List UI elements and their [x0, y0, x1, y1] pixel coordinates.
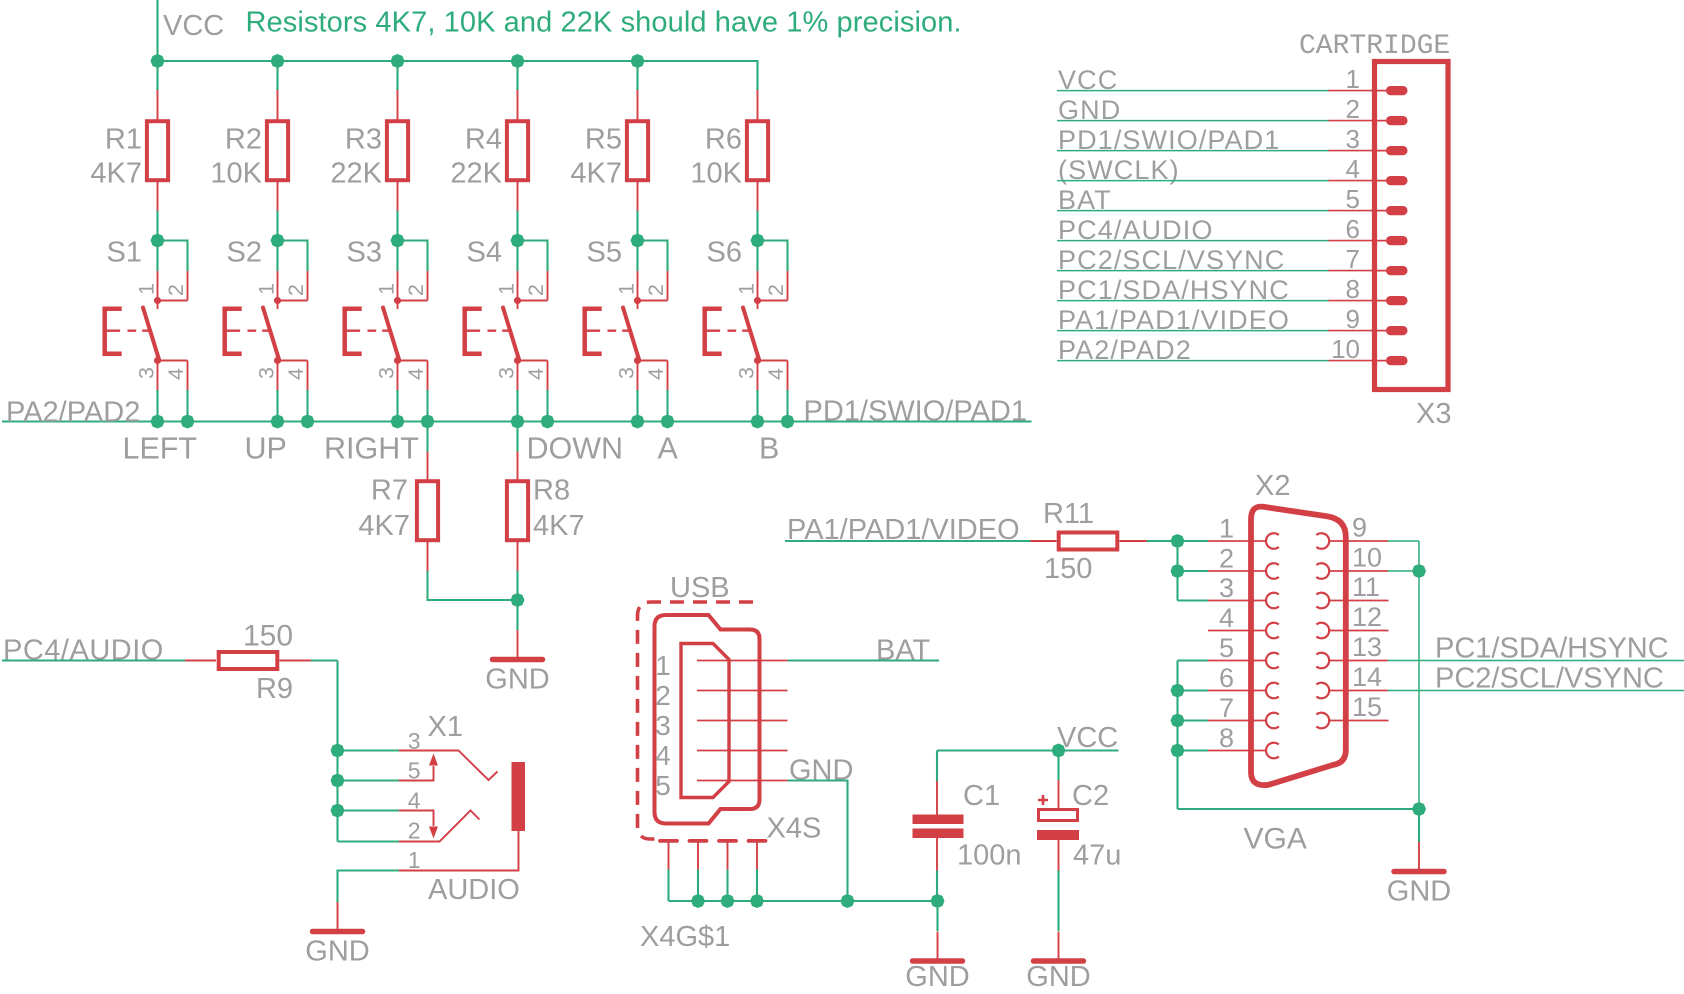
S2 pin3-pin4 link	[278, 360, 308, 362]
svg-text:7: 7	[1346, 244, 1360, 274]
svg-text:15: 15	[1352, 692, 1382, 722]
X3 pin 3 pad	[1374, 150, 1392, 152]
R5 bottom lead	[637, 180, 639, 211]
wire S5 node to pin2	[638, 241, 668, 272]
junction S3 pin1 node	[391, 234, 405, 248]
svg-text:8: 8	[1219, 723, 1234, 753]
X3 pin 10 pad	[1374, 360, 1392, 362]
junction bus S3 pin4	[421, 415, 435, 429]
wire C1 to gnd bus	[936, 871, 938, 902]
wire X3 VCC	[1057, 90, 1329, 92]
svg-text:R4: R4	[465, 124, 502, 156]
svg-text:GND: GND	[1026, 961, 1090, 993]
wire S5 pin4 to bus	[666, 390, 668, 422]
C2 bottom lead	[1058, 840, 1060, 871]
S1 actuator dashed link	[128, 330, 150, 332]
junction X2 gnd bottom	[1412, 802, 1426, 816]
R2 bottom lead	[277, 180, 279, 211]
X2 pin 11 lead	[1329, 600, 1389, 602]
wire C1 gnd down	[936, 901, 938, 931]
svg-text:PC4/AUDIO: PC4/AUDIO	[3, 635, 164, 667]
svg-text:BAT: BAT	[876, 635, 931, 667]
svg-text:4K7: 4K7	[358, 510, 410, 542]
svg-text:4: 4	[1219, 603, 1234, 633]
svg-text:PC2/SCL/VSYNC: PC2/SCL/VSYNC	[1435, 663, 1664, 695]
S1 pin 1 lead	[157, 271, 159, 301]
wire shield stub 4 down	[756, 870, 758, 902]
junction S6 pin1 node	[751, 234, 765, 248]
C1 top lead	[936, 781, 938, 815]
wire X2 pin7 stub	[1178, 719, 1209, 721]
S5 actuator dashed link	[608, 330, 630, 332]
S4 pin 4 lead	[547, 361, 549, 391]
S2 pin3 stub	[277, 352, 279, 361]
S2 pin 4 lead	[307, 361, 309, 391]
wire VCC to R5	[636, 61, 638, 90]
junction gnd bus pin5	[841, 894, 855, 908]
svg-text:3: 3	[655, 710, 671, 741]
svg-text:VCC: VCC	[1057, 722, 1118, 754]
junction bus S4 pin4	[541, 415, 555, 429]
junction gnd bus stub 1	[691, 894, 705, 908]
R8 top lead	[517, 452, 519, 483]
X3 pin 9 lead	[1329, 330, 1375, 332]
wire VCC to R2	[276, 61, 278, 90]
svg-text:2: 2	[408, 818, 421, 844]
wire S1 node to pin1	[156, 241, 158, 272]
wire S6 pin3 to bus	[756, 390, 758, 422]
svg-text:3: 3	[375, 367, 399, 379]
junction X2 pin7	[1171, 714, 1185, 728]
wire shield stub 1 down	[667, 870, 669, 902]
resistor R1	[147, 121, 168, 180]
wire X4 pin1 BAT	[788, 659, 940, 661]
R7 bottom lead	[427, 540, 429, 571]
wire X2 gnd down	[1418, 809, 1420, 842]
svg-text:UP: UP	[245, 432, 287, 466]
S4 pin1 stub	[517, 301, 519, 310]
S1 pin1 stub	[157, 301, 159, 310]
S5 pin1-pin2 link	[638, 300, 668, 302]
S5 pin1 contact dot	[634, 297, 641, 304]
wire X3 PC4/AUDIO	[1057, 240, 1329, 242]
svg-text:R6: R6	[705, 124, 742, 156]
svg-text:5: 5	[1346, 184, 1360, 214]
junction bus S5 pin4	[661, 415, 675, 429]
wire shield stub 3 down	[726, 870, 728, 902]
svg-text:1: 1	[408, 847, 421, 873]
svg-text:12: 12	[1352, 602, 1382, 632]
svg-text:2: 2	[1346, 94, 1360, 124]
svg-text:22K: 22K	[330, 158, 382, 190]
svg-text:R7: R7	[371, 475, 408, 507]
resistor R8	[507, 481, 528, 540]
S6 pin 1 lead	[757, 271, 759, 301]
wire X2 video column	[1176, 541, 1178, 601]
X4 pin 4 lead	[697, 750, 788, 752]
S6 pin3 stub	[757, 352, 759, 361]
X3 pin 5 pad	[1374, 210, 1392, 212]
X2 pin 14 lead	[1329, 690, 1389, 692]
S1 pin 4 lead	[187, 361, 189, 391]
svg-text:8: 8	[1346, 274, 1360, 304]
wire S4 pin4 to bus	[546, 390, 548, 422]
svg-text:R5: R5	[585, 124, 622, 156]
wire S3 pin4 to bus	[426, 390, 428, 422]
X3 pin 6 lead	[1329, 240, 1375, 242]
X3 pin 8 lead	[1329, 300, 1375, 302]
junction VCC rail col5	[631, 54, 645, 68]
X2 pin 8 lead	[1208, 750, 1267, 752]
svg-text:4: 4	[284, 368, 308, 380]
wire PC4/AUDIO	[2, 659, 185, 661]
X3 pin 10 lead	[1329, 360, 1375, 362]
svg-text:1: 1	[615, 283, 639, 295]
svg-text:10K: 10K	[210, 158, 262, 190]
svg-text:1: 1	[655, 650, 671, 681]
svg-text:10: 10	[1331, 334, 1360, 364]
X2 pin 1 lead	[1208, 540, 1267, 542]
X2 pin 9 lead	[1329, 540, 1389, 542]
X3 pin 4 pad	[1374, 180, 1392, 182]
VGA female contacts left column	[1266, 533, 1279, 758]
X4 shield stub 2	[697, 843, 699, 870]
S4 pin1-pin2 link	[518, 300, 548, 302]
wire S4 node to pin2	[518, 241, 548, 272]
S2 actuator E-shape	[225, 309, 242, 354]
S2 pin1 stub	[277, 301, 279, 310]
svg-text:GND: GND	[485, 664, 549, 696]
S4 pin3 stub	[517, 352, 519, 361]
wire to X1 pin4	[338, 809, 400, 811]
S5 pin3-pin4 link	[638, 360, 668, 362]
svg-text:X4S: X4S	[767, 813, 822, 845]
junction S4 pin1 node	[511, 234, 525, 248]
S4 pin3 contact dot	[514, 357, 521, 364]
S5 contact blade	[623, 308, 639, 360]
S3 pin1 stub	[397, 301, 399, 310]
X3 pin 3 lead	[1329, 150, 1375, 152]
cartridge connector X3 box	[1375, 62, 1449, 390]
X3 pin 1 pad	[1374, 90, 1392, 92]
wire X1 pin1 to gnd	[338, 871, 400, 903]
svg-text:2: 2	[404, 284, 428, 296]
X3 pin 2 lead	[1329, 120, 1375, 122]
svg-text:5: 5	[1219, 633, 1234, 663]
junction S1 pin1 node	[151, 234, 165, 248]
R1 bottom lead	[157, 180, 159, 211]
wire S3 node to pin1	[396, 241, 398, 272]
resistor R4	[507, 121, 528, 180]
svg-text:S1: S1	[107, 237, 142, 269]
svg-text:R11: R11	[1043, 498, 1094, 530]
X2 pin 10 lead	[1329, 570, 1389, 572]
wire R8 to gnd node	[516, 571, 518, 600]
ground X2	[1394, 842, 1444, 872]
junction VCC rail col3	[391, 54, 405, 68]
svg-text:9: 9	[1352, 513, 1367, 543]
S5 pin 3 lead	[637, 361, 639, 391]
S2 pin1 contact dot	[274, 297, 281, 304]
svg-text:4: 4	[764, 368, 788, 380]
svg-text:X4G$1: X4G$1	[640, 921, 730, 953]
svg-text:USB: USB	[670, 572, 730, 604]
USB tongue outline	[681, 644, 729, 798]
wire X3 PA1/PAD1/VIDEO	[1057, 330, 1329, 332]
wire X2 pin10	[1388, 570, 1420, 572]
svg-text:PA2/PAD2: PA2/PAD2	[6, 396, 140, 428]
resistor R5	[627, 121, 648, 180]
svg-text:5: 5	[655, 770, 671, 801]
S6 pin1 contact dot	[754, 297, 761, 304]
wire X2 pin3 stub	[1178, 599, 1209, 601]
X2 pin 13 lead	[1329, 660, 1389, 662]
wire X4 pin5 to gnd bus	[788, 781, 848, 902]
wire C2 to gnd	[1057, 871, 1059, 932]
svg-text:GND: GND	[905, 961, 969, 993]
S6 pin3 contact dot	[754, 357, 761, 364]
junction S2 pin1 node	[271, 234, 285, 248]
S3 pin1-pin2 link	[398, 300, 428, 302]
wire VCC to R3	[396, 61, 398, 90]
wire S6 node to pin1	[756, 241, 758, 272]
S2 pin 2 lead	[307, 271, 309, 301]
wire X2 pin9	[1388, 540, 1420, 542]
S5 actuator E-shape	[585, 309, 602, 354]
VGA female contacts right column	[1316, 533, 1329, 728]
wire S5 pin3 to bus	[636, 390, 638, 422]
wire R6 to S6	[756, 211, 758, 241]
S3 actuator E-shape	[345, 309, 362, 354]
wire VCC to R1	[156, 61, 158, 90]
R11 right lead	[1120, 540, 1147, 542]
junction VCC rail col1	[151, 54, 165, 68]
X2 pin 2 lead	[1208, 570, 1267, 572]
X2 pin 5 lead	[1208, 660, 1267, 662]
wire S1 pin4 to bus	[186, 390, 188, 422]
svg-text:X3: X3	[1416, 398, 1451, 430]
S3 contact blade	[383, 308, 399, 360]
X4 shield stub 3	[727, 843, 729, 870]
wire VCC vertical feed	[156, 0, 158, 61]
svg-text:2: 2	[524, 284, 548, 296]
S6 actuator E-shape	[705, 309, 722, 354]
svg-text:4K7: 4K7	[533, 510, 585, 542]
junction R7/R8 gnd node	[511, 593, 525, 607]
S5 pin 4 lead	[667, 361, 669, 391]
svg-text:1: 1	[735, 283, 759, 295]
wire X2 pin6 stub	[1178, 689, 1209, 691]
wire PC2/SCL/VSYNC	[1388, 690, 1684, 692]
svg-text:4: 4	[644, 368, 668, 380]
wire X2 right gnd column	[1418, 541, 1420, 809]
svg-text:S6: S6	[707, 237, 742, 269]
R2 top lead	[277, 90, 279, 121]
wire R4 to S4	[516, 211, 518, 241]
wire VCC rail right	[937, 749, 1119, 751]
svg-text:1: 1	[1346, 64, 1360, 94]
junction VCC C2	[1052, 744, 1066, 758]
svg-text:VCC: VCC	[163, 10, 224, 42]
svg-text:3: 3	[255, 367, 279, 379]
X2 pin 3 lead	[1208, 600, 1267, 602]
junction gnd bus stub 3	[750, 894, 764, 908]
wire S3 node to pin2	[398, 241, 428, 272]
svg-text:10K: 10K	[690, 158, 742, 190]
R6 bottom lead	[757, 180, 759, 211]
wire R2 to S2	[276, 211, 278, 241]
wire X3 BAT	[1057, 210, 1329, 212]
svg-text:S2: S2	[227, 237, 262, 269]
wire X3 (SWCLK)	[1057, 180, 1329, 182]
ground C1	[913, 932, 963, 962]
R11 left lead	[1031, 540, 1057, 542]
junction X2 pin10 node	[1412, 564, 1426, 578]
X3 pin 5 lead	[1329, 210, 1375, 212]
S5 pin 1 lead	[637, 271, 639, 301]
wire S1 pin3 to bus	[156, 390, 158, 422]
wire VCC to R4	[516, 61, 518, 90]
svg-text:4: 4	[164, 368, 188, 380]
svg-text:4K7: 4K7	[90, 158, 142, 190]
svg-text:X1: X1	[428, 711, 463, 743]
svg-text:RIGHT: RIGHT	[324, 432, 419, 466]
svg-text:R1: R1	[105, 124, 142, 156]
S2 actuator dashed link	[248, 330, 270, 332]
wire S6 node to pin2	[758, 241, 788, 272]
X3 pin 7 lead	[1329, 270, 1375, 272]
svg-text:11: 11	[1352, 572, 1380, 602]
S3 pin 2 lead	[427, 271, 429, 301]
wire X2 pin5 stub	[1178, 659, 1209, 661]
wire R1 to S1	[156, 211, 158, 241]
resistor R2	[267, 121, 288, 180]
junction X2 pin6	[1171, 684, 1185, 698]
R4 top lead	[517, 90, 519, 121]
ground X1	[313, 902, 363, 932]
wire to X1 pin2	[338, 840, 400, 842]
svg-text:150: 150	[243, 620, 293, 653]
junction bus S2 pin3	[271, 415, 285, 429]
svg-text:1: 1	[135, 283, 159, 295]
ground R7/R8	[493, 630, 543, 660]
S6 pin3-pin4 link	[758, 360, 788, 362]
svg-text:B: B	[759, 432, 779, 466]
wire VCC to C1	[936, 751, 938, 782]
svg-text:LEFT: LEFT	[123, 432, 198, 466]
wire button bus PA2/PAD2 to PD1/SWIO/PAD1	[2, 420, 1032, 422]
junction gnd bus stub 2	[721, 894, 735, 908]
S6 pin 3 lead	[757, 361, 759, 391]
S3 pin 3 lead	[397, 361, 399, 391]
wire S5 node to pin1	[636, 241, 638, 272]
junction X1 pin4	[331, 804, 345, 818]
S1 pin3 contact dot	[154, 357, 161, 364]
X4 shield stub 4	[756, 843, 758, 870]
S3 pin 4 lead	[427, 361, 429, 391]
R5 top lead	[637, 90, 639, 121]
S5 pin3 stub	[637, 352, 639, 361]
svg-text:R9: R9	[256, 673, 293, 705]
wire S2 node to pin1	[276, 241, 278, 272]
S4 contact blade	[503, 308, 519, 360]
wire VCC rail	[158, 60, 759, 62]
capacitor C2 polarized plus	[1038, 795, 1048, 805]
junction bus S3 pin3	[391, 415, 405, 429]
wire gnd node down	[516, 600, 518, 630]
wire X2 pin1 stub	[1178, 540, 1209, 542]
X2 pin 7 lead	[1208, 720, 1267, 722]
svg-text:2: 2	[655, 680, 671, 711]
S4 actuator dashed link	[488, 330, 510, 332]
junction bus S6 pin4	[781, 415, 795, 429]
X4 pin 5 lead	[697, 780, 788, 782]
svg-text:S3: S3	[347, 237, 382, 269]
wire to X1 pin3	[338, 749, 400, 751]
svg-text:10: 10	[1352, 543, 1382, 573]
X4 pin 3 lead	[697, 720, 788, 722]
S1 pin3-pin4 link	[158, 360, 188, 362]
svg-text:3: 3	[1219, 573, 1234, 603]
S5 pin 2 lead	[667, 271, 669, 301]
resistor R3	[387, 121, 408, 180]
wire S3 pin3 to bus	[396, 390, 398, 422]
X3 pin 7 pad	[1374, 270, 1392, 272]
svg-text:3: 3	[495, 367, 519, 379]
capacitor C1 plates	[913, 815, 964, 839]
S6 pin 4 lead	[787, 361, 789, 391]
wire S2 pin3 to bus	[276, 390, 278, 422]
svg-text:1: 1	[375, 283, 399, 295]
svg-text:47u: 47u	[1073, 840, 1121, 872]
S4 pin 3 lead	[517, 361, 519, 391]
S3 pin 1 lead	[397, 271, 399, 301]
S3 pin3-pin4 link	[398, 360, 428, 362]
wire R7 to gnd node	[428, 571, 518, 600]
svg-text:3: 3	[615, 367, 639, 379]
S1 pin 3 lead	[157, 361, 159, 391]
wire X3 GND	[1057, 120, 1329, 122]
svg-text:2: 2	[164, 284, 188, 296]
resistor R7	[417, 481, 438, 540]
svg-text:3: 3	[735, 367, 759, 379]
svg-text:4K7: 4K7	[570, 158, 622, 190]
X3 pin 4 lead	[1329, 180, 1375, 182]
wire PA1/PAD1/VIDEO	[785, 540, 1031, 542]
S2 pin 1 lead	[277, 271, 279, 301]
wire X2 gnd column	[1176, 661, 1178, 810]
S6 pin1-pin2 link	[758, 300, 788, 302]
wire VCC to C2	[1057, 751, 1059, 781]
wire R9 to X1 column	[311, 659, 338, 661]
X3 pin 6 pad	[1374, 240, 1392, 242]
junction S5 pin1 node	[631, 234, 645, 248]
svg-text:X2: X2	[1255, 470, 1290, 502]
wire X2 pin8 stub	[1178, 749, 1209, 751]
X3 pin 9 pad	[1374, 330, 1392, 332]
wire S2 node to pin2	[278, 241, 308, 272]
wire shield stub 2 down	[697, 870, 699, 902]
S4 pin 1 lead	[517, 271, 519, 301]
R8 bottom lead	[517, 540, 519, 571]
svg-text:6: 6	[1346, 214, 1360, 244]
svg-text:C1: C1	[963, 780, 1000, 812]
svg-text:R2: R2	[225, 124, 262, 156]
R3 bottom lead	[397, 180, 399, 211]
capacitor C2 plates	[1037, 810, 1079, 841]
R7 top lead	[427, 452, 429, 483]
wire bus to R7	[426, 422, 428, 452]
